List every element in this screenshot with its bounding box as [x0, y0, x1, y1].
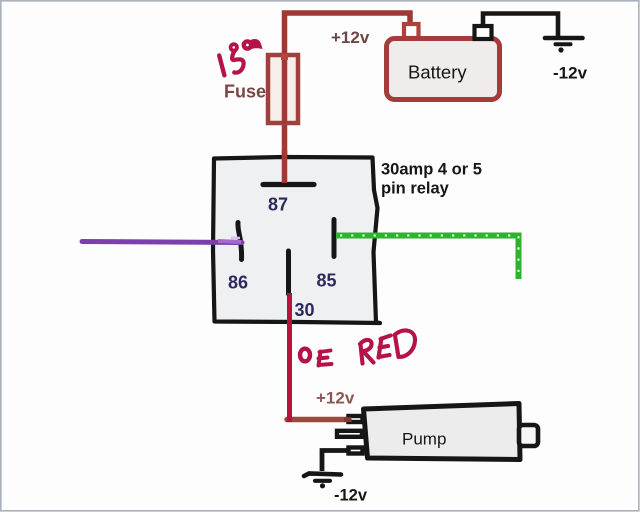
svg-text:30: 30 — [295, 300, 315, 320]
wire red brick to pump — [287, 417, 351, 423]
pump connector pin 2 — [337, 431, 362, 437]
svg-text:+12v: +12v — [316, 389, 355, 408]
wire red from fuse top to battery positive — [285, 13, 411, 186]
battery positive terminal — [404, 24, 419, 38]
ground (pump) — [304, 474, 341, 489]
wire black battery negative to ground — [483, 14, 558, 38]
svg-text:Pump: Pump — [402, 430, 446, 449]
svg-text:-12v: -12v — [553, 64, 588, 83]
fuse value annotation 15a — [219, 41, 251, 75]
relay K1 body — [213, 157, 380, 323]
wire color annotation OE RED — [300, 330, 415, 365]
svg-text:+12v: +12v — [331, 28, 370, 47]
pump connector pin 1 (+) — [349, 416, 363, 422]
battery negative terminal — [475, 26, 492, 39]
wire red fuse to pin 87 (overlaps relay edge) — [282, 150, 288, 183]
relay pin 86 terminal — [238, 223, 242, 260]
svg-text:85: 85 — [317, 271, 337, 291]
svg-text:Battery: Battery — [408, 62, 467, 83]
relay pin 85 terminal — [332, 220, 337, 257]
15a letter a tail — [250, 39, 263, 49]
fuse F1 — [268, 54, 298, 123]
relay pin 30 terminal — [286, 251, 291, 294]
svg-text:pin relay: pin relay — [381, 180, 450, 198]
svg-text:30amp 4 or 5: 30amp 4 or 5 — [381, 161, 482, 179]
wire red tip over pump pin 1 — [344, 417, 352, 422]
pump connector pin 3 (-) — [349, 448, 363, 454]
wire black pump negative to ground — [322, 451, 347, 472]
relay pin 87 terminal bar — [263, 182, 314, 187]
svg-text:87: 87 — [268, 195, 288, 215]
pump M1 body — [364, 404, 521, 460]
pump outlet tab — [519, 425, 538, 446]
wire red crimson pin 30 down — [287, 293, 292, 417]
battery B1 — [387, 39, 500, 100]
svg-text:Fuse: Fuse — [224, 82, 266, 102]
wire purple to pin 86 — [82, 242, 242, 243]
svg-text:86: 86 — [228, 273, 248, 293]
svg-text:-12v: -12v — [334, 487, 368, 505]
ground (battery) — [545, 38, 583, 53]
wire green from pin 85 — [336, 236, 519, 280]
